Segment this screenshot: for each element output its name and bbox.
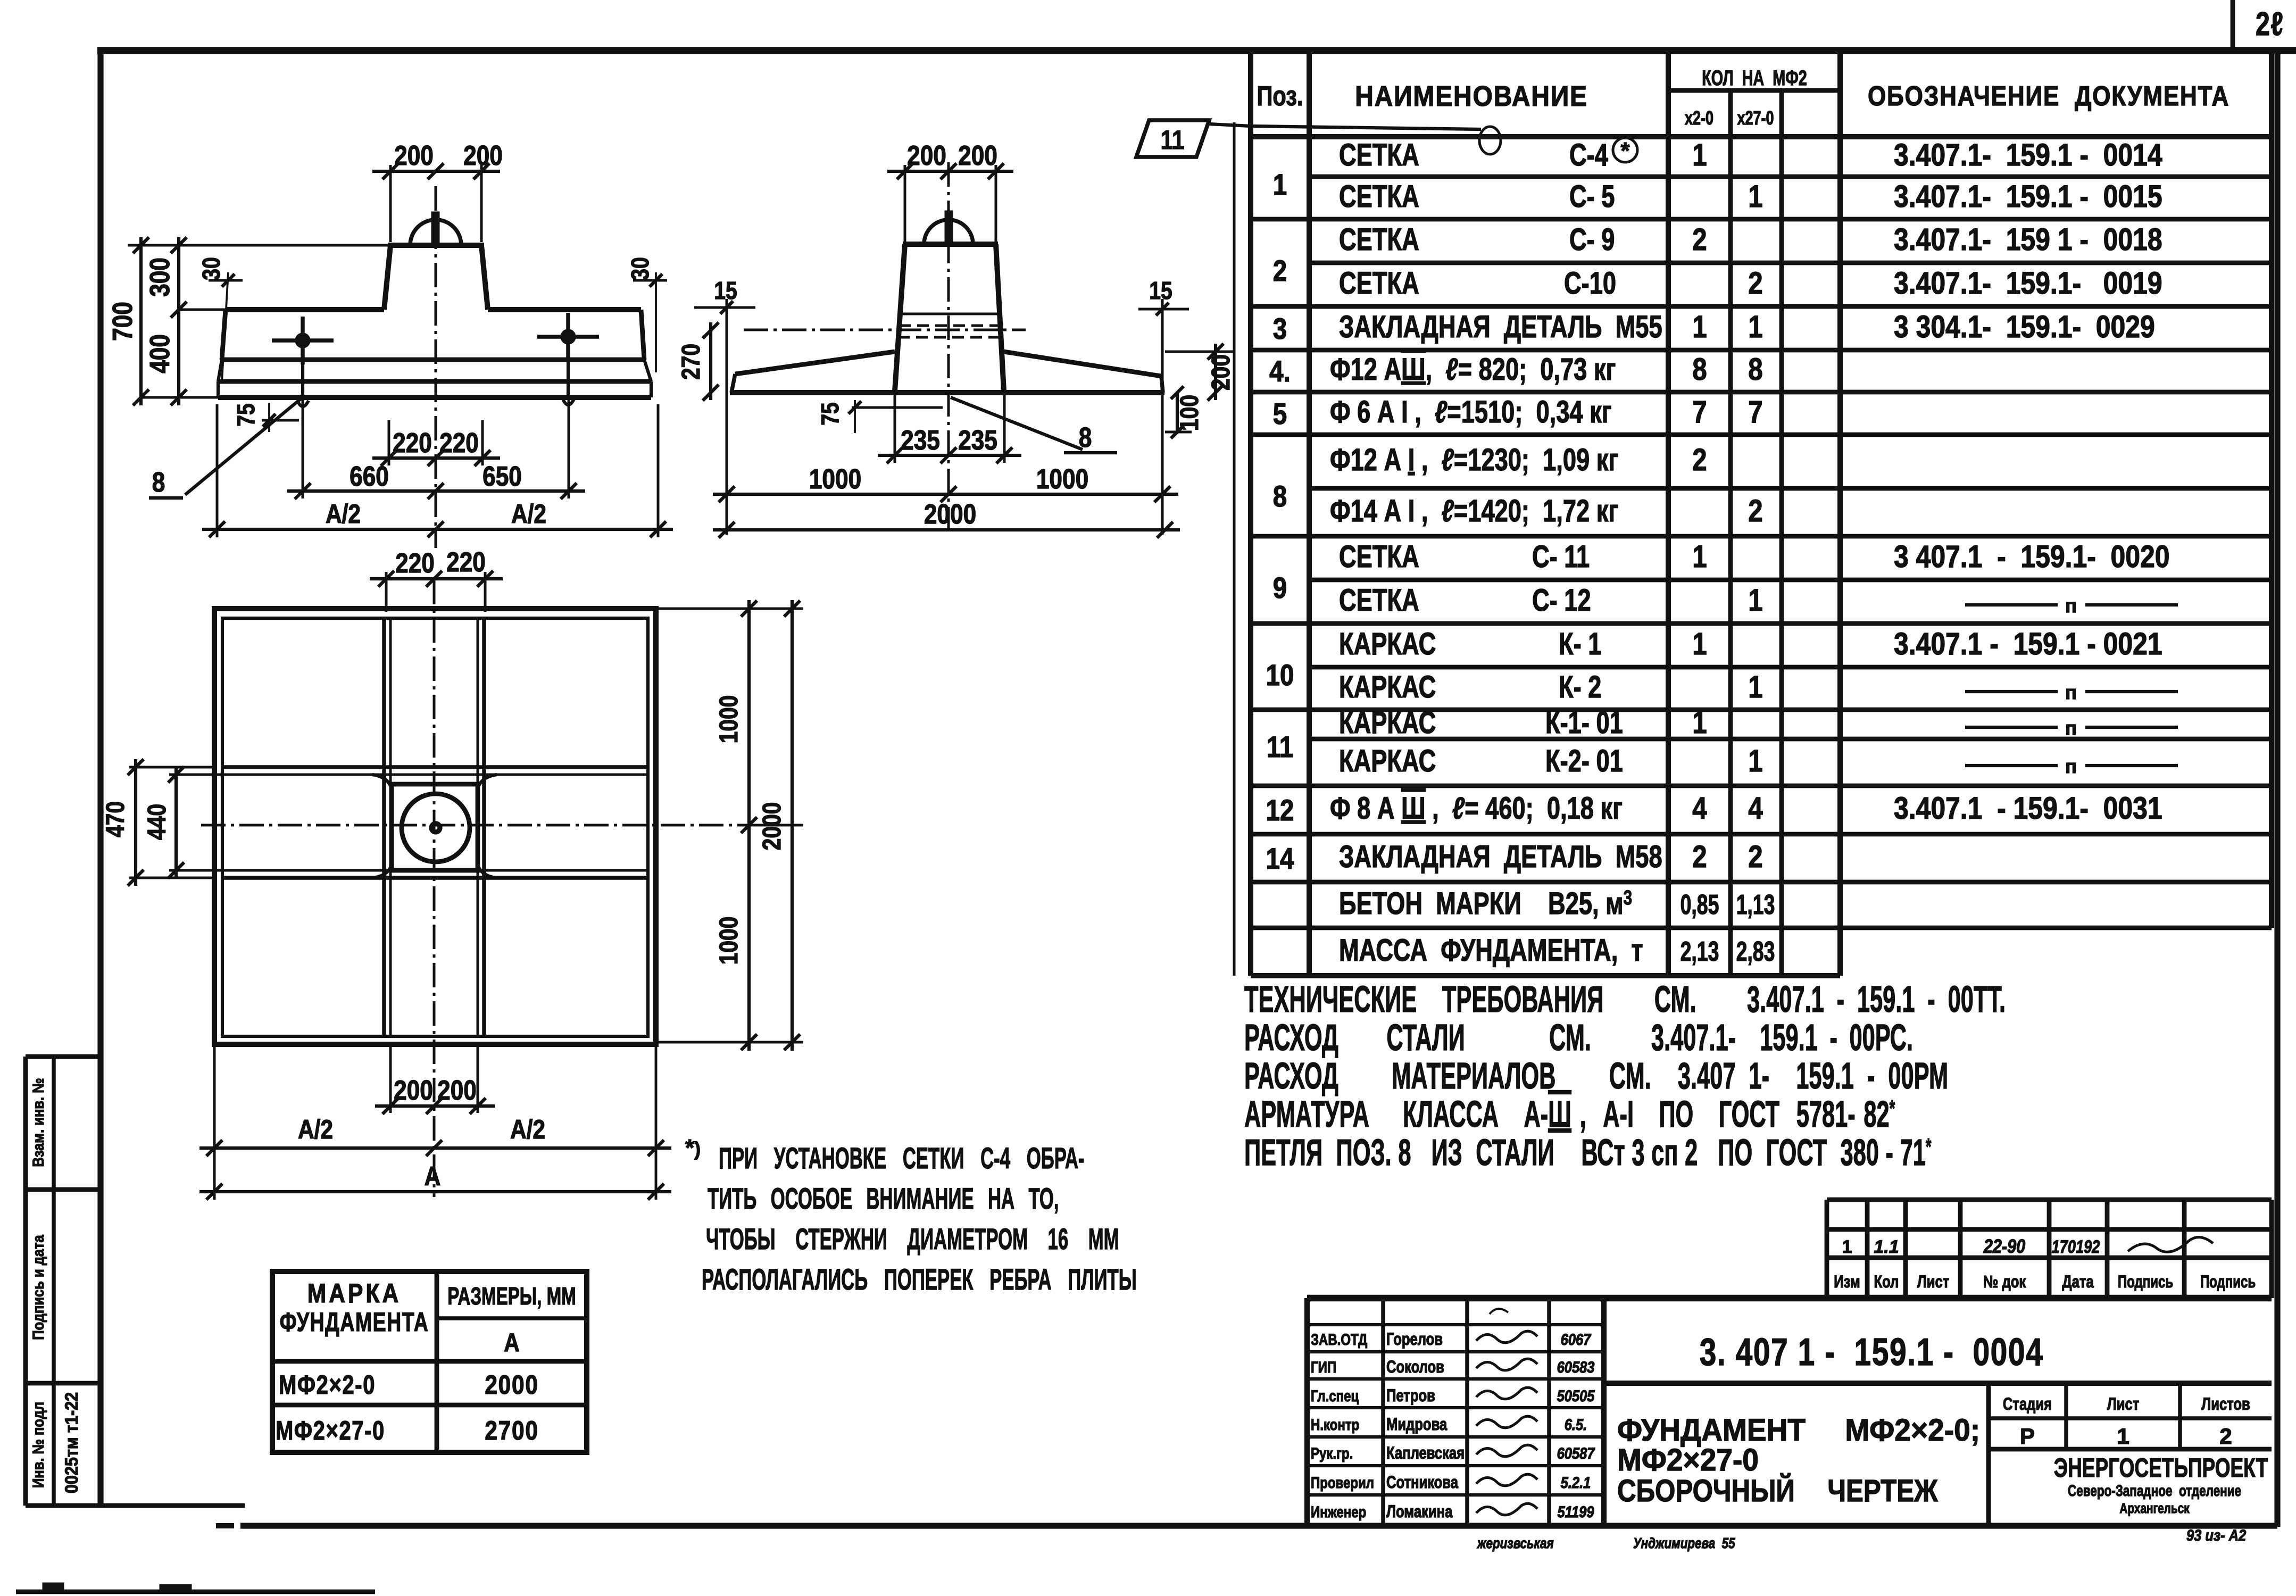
svg-text:С-10: С-10 (1564, 267, 1616, 301)
svg-text:ЗАВ.ОТД: ЗАВ.ОТД (1311, 1330, 1367, 1348)
svg-text:75: 75 (232, 403, 260, 426)
svg-text:Архангельск: Архангельск (2119, 1501, 2189, 1516)
svg-text:КОЛ НА МФ2: КОЛ НА МФ2 (1702, 66, 1807, 90)
svg-text:Листов: Листов (2201, 1395, 2250, 1414)
svg-text:2: 2 (1748, 494, 1762, 528)
svg-text:30: 30 (627, 257, 654, 280)
svg-text:х2-0: х2-0 (1685, 107, 1713, 129)
svg-text:6067: 6067 (1561, 1331, 1592, 1348)
svg-text:30: 30 (198, 257, 226, 280)
svg-text:2,83: 2,83 (1736, 936, 1775, 967)
svg-text:1: 1 (2117, 1424, 2129, 1449)
svg-text:МФ2×27-0: МФ2×27-0 (1617, 1443, 1759, 1477)
svg-text:0025тм т1-22: 0025тм т1-22 (62, 1392, 82, 1493)
svg-text:Унджимирева 55: Унджимирева 55 (1633, 1535, 1735, 1552)
svg-text:СЕТКА: СЕТКА (1339, 223, 1419, 257)
svg-text:НАИМЕНОВАНИЕ: НАИМЕНОВАНИЕ (1355, 80, 1588, 112)
svg-text:0,85: 0,85 (1681, 889, 1719, 920)
svg-text:х27-0: х27-0 (1737, 107, 1774, 129)
svg-text:КАРКАС: КАРКАС (1339, 744, 1436, 779)
svg-text:440: 440 (143, 804, 171, 840)
svg-text:А/2: А/2 (326, 499, 361, 529)
svg-text:ЭНЕРГОСЕТЬПРОЕКТ: ЭНЕРГОСЕТЬПРОЕКТ (2054, 1453, 2268, 1483)
svg-text:К-1- 01: К-1- 01 (1545, 706, 1623, 741)
svg-text:А/2: А/2 (511, 499, 546, 529)
svg-text:п: п (2065, 755, 2077, 777)
svg-text:200: 200 (437, 1075, 477, 1106)
svg-text:СЕТКА: СЕТКА (1339, 584, 1419, 618)
svg-text:660: 660 (350, 461, 389, 492)
svg-text:1: 1 (1748, 583, 1762, 618)
svg-text:Соколов: Соколов (1386, 1358, 1444, 1376)
svg-text:6.5.: 6.5. (1565, 1416, 1587, 1433)
svg-text:ЗАКЛАДНАЯ ДЕТАЛЬ М55: ЗАКЛАДНАЯ ДЕТАЛЬ М55 (1339, 310, 1662, 345)
svg-text:3.407.1- 159.1- 0019: 3.407.1- 159.1- 0019 (1894, 267, 2162, 301)
svg-text:200: 200 (463, 140, 503, 171)
svg-text:51199: 51199 (1558, 1503, 1594, 1520)
svg-text:Ломакина: Ломакина (1386, 1502, 1453, 1521)
svg-text:МФ2×2-0: МФ2×2-0 (279, 1370, 376, 1400)
svg-text:2: 2 (1748, 266, 1762, 301)
svg-text:СЕТКА: СЕТКА (1339, 180, 1419, 214)
svg-text:3: 3 (1273, 312, 1287, 345)
svg-text:22-90: 22-90 (1983, 1236, 2026, 1258)
svg-text:п: п (2065, 717, 2077, 739)
svg-text:650: 650 (483, 461, 522, 492)
svg-text:2,13: 2,13 (1681, 936, 1719, 967)
svg-text:*): *) (685, 1135, 701, 1161)
svg-text:А/2: А/2 (510, 1115, 545, 1144)
svg-text:220: 220 (393, 428, 432, 459)
svg-text:4: 4 (1692, 791, 1707, 826)
svg-text:Н.контр: Н.контр (1311, 1415, 1359, 1433)
svg-text:2: 2 (1692, 443, 1707, 477)
svg-text:ПРИ УСТАНОВКЕ СЕТКИ С-4 ОБРА-: ПРИ УСТАНОВКЕ СЕТКИ С-4 ОБРА- (719, 1142, 1084, 1175)
svg-text:2: 2 (1273, 254, 1287, 287)
svg-text:Горелов: Горелов (1386, 1330, 1443, 1349)
svg-text:Ф 6 А I , ℓ=1510; 0,34 кг: Ф 6 А I , ℓ=1510; 0,34 кг (1330, 395, 1612, 430)
svg-text:3 407.1 - 159.1- 0020: 3 407.1 - 159.1- 0020 (1894, 540, 2169, 574)
svg-text:Дата: Дата (2062, 1273, 2094, 1291)
svg-text:8: 8 (1748, 352, 1762, 387)
svg-text:3.407.1- 159.1 - 0014: 3.407.1- 159.1 - 0014 (1894, 138, 2162, 172)
svg-text:Ф14 А I , ℓ=1420; 1,72 кг: Ф14 А I , ℓ=1420; 1,72 кг (1330, 494, 1618, 529)
svg-text:ОБОЗНАЧЕНИЕ ДОКУМЕНТА: ОБОЗНАЧЕНИЕ ДОКУМЕНТА (1868, 81, 2230, 112)
svg-text:2700: 2700 (485, 1416, 538, 1445)
svg-text:200: 200 (907, 140, 946, 171)
svg-text:1: 1 (1692, 539, 1707, 574)
svg-text:60587: 60587 (1557, 1444, 1595, 1462)
svg-text:С-4: С-4 (1569, 138, 1608, 173)
svg-text:Инв. № подл: Инв. № подл (29, 1402, 47, 1488)
svg-text:2ℓ: 2ℓ (2256, 5, 2284, 42)
svg-text:1: 1 (1692, 705, 1707, 740)
svg-text:1: 1 (1842, 1237, 1852, 1257)
svg-text:К- 1: К- 1 (1559, 627, 1601, 662)
svg-text:СБОРОЧНЫЙ ЧЕРТЕЖ: СБОРОЧНЫЙ ЧЕРТЕЖ (1617, 1473, 1938, 1508)
svg-text:200: 200 (394, 1075, 433, 1106)
svg-text:К-2- 01: К-2- 01 (1545, 744, 1623, 779)
svg-text:№ док: № док (1983, 1273, 2026, 1291)
svg-text:Петров: Петров (1386, 1386, 1435, 1405)
svg-text:Поз.: Поз. (1257, 80, 1303, 112)
svg-text:10: 10 (1266, 659, 1294, 692)
svg-text:Гл.спец: Гл.спец (1311, 1386, 1359, 1404)
svg-text:Изм: Изм (1834, 1273, 1860, 1291)
svg-text:Ф12 АШ, ℓ= 820; 0,73 кг: Ф12 АШ, ℓ= 820; 0,73 кг (1330, 353, 1616, 387)
svg-text:Каплевская: Каплевская (1386, 1444, 1465, 1462)
svg-text:С- 11: С- 11 (1532, 540, 1590, 575)
svg-text:1: 1 (1692, 310, 1707, 344)
svg-text:1: 1 (1273, 168, 1287, 201)
svg-text:Ф12 А I , ℓ=1230; 1,09 кг: Ф12 А I , ℓ=1230; 1,09 кг (1330, 443, 1618, 478)
svg-text:Проверил: Проверил (1311, 1473, 1374, 1491)
svg-text:200: 200 (394, 140, 434, 171)
svg-text:Кол: Кол (1874, 1273, 1899, 1291)
svg-text:12: 12 (1266, 794, 1294, 827)
svg-text:Лист: Лист (1917, 1273, 1949, 1291)
svg-text:Инженер: Инженер (1311, 1502, 1366, 1520)
svg-text:9: 9 (1273, 571, 1287, 604)
svg-text:Взам. инв. №: Взам. инв. № (29, 1078, 47, 1167)
svg-text:400: 400 (145, 334, 176, 373)
svg-text:Стадия: Стадия (2003, 1395, 2052, 1414)
svg-text:1000: 1000 (1036, 464, 1088, 495)
svg-text:3 304.1- 159.1- 0029: 3 304.1- 159.1- 0029 (1894, 310, 2155, 344)
svg-text:А/2: А/2 (298, 1115, 333, 1144)
svg-text:РАСПОЛАГАЛИСЬ ПОПЕРЕК РЕБРА ПЛ: РАСПОЛАГАЛИСЬ ПОПЕРЕК РЕБРА ПЛИТЫ (702, 1263, 1137, 1296)
svg-text:3.407.1- 159 1 - 0018: 3.407.1- 159 1 - 0018 (1894, 223, 2162, 257)
svg-text:п: п (2065, 595, 2077, 617)
svg-text:Рук.гр.: Рук.гр. (1311, 1444, 1353, 1462)
svg-text:Северо-Западное отделение: Северо-Западное отделение (2068, 1482, 2241, 1500)
svg-text:11: 11 (1267, 730, 1293, 763)
svg-text:220: 220 (439, 428, 479, 459)
svg-text:1,13: 1,13 (1736, 889, 1775, 920)
svg-text:470: 470 (102, 801, 130, 837)
svg-text:7: 7 (1748, 395, 1762, 429)
svg-text:2000: 2000 (924, 499, 976, 530)
svg-text:1000: 1000 (715, 917, 743, 965)
svg-text:МАРКА: МАРКА (307, 1278, 402, 1308)
svg-text:МАССА ФУНДАМЕНТА, т: МАССА ФУНДАМЕНТА, т (1339, 934, 1643, 968)
svg-text:1: 1 (1748, 179, 1762, 214)
svg-text:КАРКАС: КАРКАС (1339, 706, 1436, 741)
svg-text:К- 2: К- 2 (1559, 670, 1601, 705)
svg-text:75: 75 (817, 402, 844, 425)
svg-text:170192: 170192 (2052, 1236, 2100, 1257)
svg-text:1: 1 (1692, 627, 1707, 661)
svg-text:8: 8 (1079, 422, 1092, 453)
svg-text:235: 235 (901, 425, 940, 456)
svg-text:235: 235 (958, 425, 997, 456)
svg-text:МФ2×27-0: МФ2×27-0 (276, 1416, 385, 1445)
svg-text:Подпись и дата: Подпись и дата (29, 1235, 47, 1340)
svg-text:1.1: 1.1 (1874, 1237, 1899, 1257)
svg-text:2: 2 (1748, 839, 1762, 874)
svg-text:Ф 8 А Ш , ℓ= 460; 0,18 кг: Ф 8 А Ш , ℓ= 460; 0,18 кг (1330, 792, 1623, 826)
svg-text:БЕТОН МАРКИ В25, м3: БЕТОН МАРКИ В25, м3 (1339, 887, 1632, 921)
svg-text:5.2.1: 5.2.1 (1561, 1474, 1591, 1491)
svg-text:С- 5: С- 5 (1569, 180, 1615, 214)
svg-text:220: 220 (446, 547, 486, 578)
svg-text:50505: 50505 (1557, 1387, 1595, 1404)
svg-text:1: 1 (1692, 138, 1707, 172)
svg-text:200: 200 (1207, 354, 1235, 390)
svg-text:3.407.1 - 159.1 - 0021: 3.407.1 - 159.1 - 0021 (1894, 627, 2162, 661)
svg-text:11: 11 (1161, 125, 1185, 155)
svg-text:2000: 2000 (485, 1370, 538, 1400)
svg-text:КАРКАС: КАРКАС (1339, 627, 1436, 662)
svg-text:1: 1 (1748, 670, 1762, 704)
svg-text:АРМАТУРА КЛАССА А-Ш , А-: АРМАТУРА КЛАССА А-Ш , А-I ПО ГОСТ 5781- … (1244, 1093, 1895, 1135)
svg-text:270: 270 (677, 344, 705, 380)
svg-text:1: 1 (1748, 744, 1762, 778)
svg-text:А: А (425, 1161, 441, 1191)
svg-text:8: 8 (1273, 480, 1287, 513)
svg-text:1000: 1000 (809, 464, 861, 495)
svg-text:5: 5 (1273, 397, 1287, 430)
svg-text:ГИП: ГИП (1311, 1358, 1336, 1376)
svg-text:Подпись: Подпись (2200, 1272, 2256, 1291)
svg-text:Лист: Лист (2107, 1395, 2139, 1414)
svg-text:15: 15 (1149, 277, 1172, 305)
svg-text:Мидрова: Мидрова (1386, 1415, 1448, 1434)
svg-text:1000: 1000 (715, 695, 743, 744)
svg-text:Подпись: Подпись (2118, 1272, 2173, 1291)
svg-text:2: 2 (2219, 1424, 2232, 1449)
svg-text:КАРКАС: КАРКАС (1339, 670, 1436, 705)
svg-text:1: 1 (1748, 310, 1762, 344)
svg-text:С- 12: С- 12 (1532, 584, 1591, 618)
svg-text:3.407.1- 159.1 - 0015: 3.407.1- 159.1 - 0015 (1894, 180, 2162, 214)
svg-text:ФУНДАМЕНТА: ФУНДАМЕНТА (280, 1308, 429, 1337)
svg-text:СЕТКА: СЕТКА (1339, 138, 1419, 173)
svg-text:РАЗМЕРЫ, ММ: РАЗМЕРЫ, ММ (447, 1283, 576, 1310)
svg-text:4: 4 (1748, 791, 1762, 826)
svg-text:Сотникова: Сотникова (1386, 1473, 1459, 1492)
svg-text:ФУНДАМЕНТ МФ2×2-0;: ФУНДАМЕНТ МФ2×2-0; (1617, 1413, 1980, 1448)
svg-text:*: * (1620, 138, 1630, 164)
svg-text:ЧТОБЫ СТЕРЖНИ ДИАМЕТРОМ 16 ММ: ЧТОБЫ СТЕРЖНИ ДИАМЕТРОМ 16 ММ (706, 1223, 1119, 1256)
svg-text:8: 8 (152, 467, 165, 498)
svg-text:А: А (504, 1329, 519, 1357)
svg-text:3.407.1 - 159.1- 0031: 3.407.1 - 159.1- 0031 (1894, 792, 2162, 826)
svg-text:300: 300 (145, 257, 176, 297)
svg-text:ПЕТЛЯ ПОЗ. 8 ИЗ СТАЛИ В: ПЕТЛЯ ПОЗ. 8 ИЗ СТАЛИ ВСт 3 сп 2 ПО ГОСТ… (1244, 1132, 1932, 1173)
svg-text:60583: 60583 (1557, 1358, 1595, 1376)
svg-text:700: 700 (107, 302, 138, 341)
svg-text:3. 407 1 - 159.1 - 0004: 3. 407 1 - 159.1 - 0004 (1700, 1331, 2044, 1374)
svg-text:2: 2 (1692, 222, 1707, 257)
svg-text:ТИТЬ ОСОБОЕ ВНИМАНИЕ НА ТО,: ТИТЬ ОСОБОЕ ВНИМАНИЕ НА ТО, (708, 1182, 1059, 1216)
svg-text:200: 200 (958, 140, 997, 171)
svg-text:РАСХОД МАТЕРИАЛОВ СМ. 3: РАСХОД МАТЕРИАЛОВ СМ. 3.407 1- 159.1 - 0… (1244, 1055, 1948, 1096)
svg-text:РАСХОД СТАЛИ СМ.: РАСХОД СТАЛИ СМ. 3.407.1- 159.1 - 00РС. (1244, 1017, 1913, 1058)
svg-text:8: 8 (1692, 352, 1707, 387)
svg-text:ТЕХНИЧЕСКИЕ ТРЕБОВАНИЯ СМ.: ТЕХНИЧЕСКИЕ ТРЕБОВАНИЯ СМ. 3.407.1 - 159… (1244, 978, 2006, 1020)
svg-text:СЕТКА: СЕТКА (1339, 267, 1419, 301)
svg-text:Р: Р (2020, 1424, 2035, 1449)
svg-text:ЗАКЛАДНАЯ ДЕТАЛЬ М58: ЗАКЛАДНАЯ ДЕТАЛЬ М58 (1339, 840, 1662, 875)
svg-text:4.: 4. (1269, 355, 1291, 388)
svg-text:220: 220 (395, 548, 435, 579)
svg-text:14: 14 (1266, 842, 1294, 875)
svg-text:СЕТКА: СЕТКА (1339, 540, 1419, 575)
svg-text:100: 100 (1176, 395, 1204, 431)
svg-text:7: 7 (1692, 395, 1707, 429)
svg-text:2: 2 (1692, 839, 1707, 874)
svg-text:жеризвськая: жеризвськая (1476, 1535, 1554, 1552)
svg-text:93 из- А2: 93 из- А2 (2186, 1526, 2247, 1544)
svg-text:2000: 2000 (758, 802, 786, 851)
svg-text:С- 9: С- 9 (1569, 223, 1615, 257)
svg-text:п: п (2065, 681, 2077, 703)
